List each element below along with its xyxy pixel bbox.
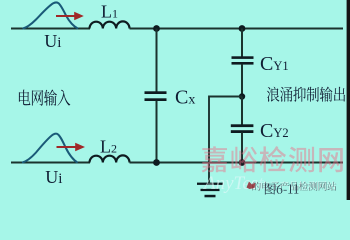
node junction top of CX — [153, 25, 160, 32]
node junction bottom of CY2 — [239, 159, 246, 166]
capacitor CY1 — [232, 29, 254, 97]
inductor L1 — [90, 21, 130, 28]
wire top line right segment — [130, 28, 344, 30]
watermark 嘉峪检测网 — [202, 146, 343, 172]
surge direction arrow bottom — [57, 143, 86, 152]
right edge dark strip — [347, 0, 350, 200]
caption 图6-11 — [265, 183, 299, 194]
wire top line left segment — [11, 28, 90, 30]
surge waveform Ui top — [23, 3, 79, 29]
node junction between CY1 and CY2 — [239, 93, 245, 99]
watermark small site text — [252, 182, 336, 191]
capacitor CX — [145, 29, 167, 163]
capacitor CY2 — [231, 97, 254, 163]
wire from CY midpoint to ground: horizontal — [209, 96, 242, 98]
inductor L2 — [90, 155, 130, 162]
surge direction arrow top — [56, 12, 84, 21]
label 浪涌抑制输出 (surge-suppressed output) — [267, 87, 345, 102]
label 电网输入 (grid input) — [19, 90, 70, 106]
wire bottom line right segment — [130, 162, 344, 164]
logo mark red — [247, 182, 256, 190]
wire bottom line left segment — [11, 162, 90, 164]
watermark small site text highlight — [252, 181, 336, 190]
node junction top of CY1 — [239, 25, 246, 32]
surge waveform Ui bottom — [22, 134, 78, 163]
node junction bottom of CX — [153, 159, 160, 166]
ground — [197, 183, 223, 198]
wire from CY midpoint to ground: vertical — [208, 96, 210, 183]
